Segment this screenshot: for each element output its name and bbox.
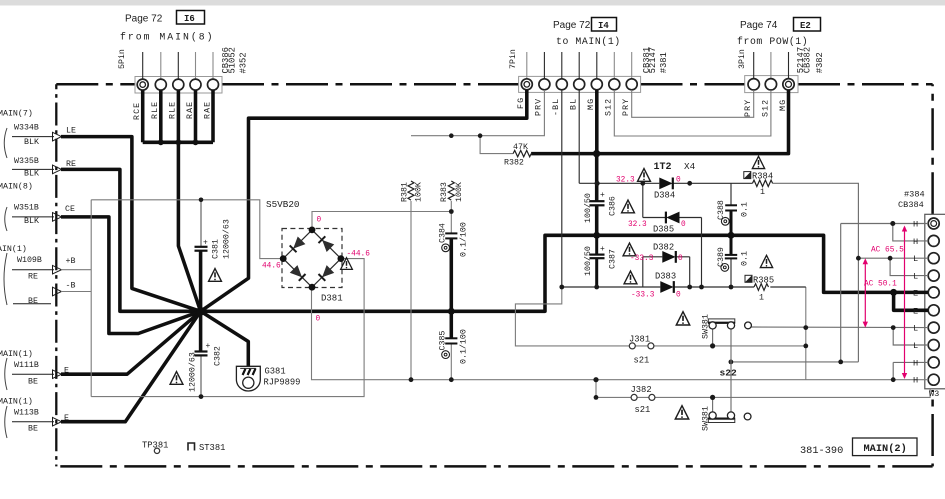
svg-text:0: 0 — [676, 177, 681, 185]
junction: R381 bottom on 0V rail — [409, 377, 414, 382]
AC measurement arrows — [863, 226, 908, 380]
svg-text:MG: MG — [587, 98, 596, 110]
svg-text:D382: D382 — [653, 243, 674, 253]
wire: CB381 pin leads above — [527, 52, 632, 79]
junction: J382 riser on 0V rail — [593, 377, 598, 382]
capacitor C385 0.1/100 — [445, 338, 457, 343]
connector CB381 (7 pin, to MAIN(1)) — [519, 52, 641, 92]
svg-text:RAE: RAE — [186, 101, 195, 119]
wire: C385 bottom lead — [450, 344, 452, 380]
svg-text:D383: D383 — [655, 271, 676, 281]
svg-text:100/50: 100/50 — [583, 246, 593, 276]
svg-text:+: + — [600, 191, 605, 200]
svg-text:0: 0 — [317, 217, 322, 225]
svg-text:BLK: BLK — [24, 169, 39, 178]
svg-text:RJP9899: RJP9899 — [264, 378, 301, 388]
wire: C381 top rail to bridge + — [91, 200, 281, 259]
wire: row3 riser from row4 — [642, 257, 644, 287]
svg-text:W351B: W351B — [14, 204, 39, 213]
wire: C389 bottom lead — [730, 258, 732, 287]
svg-text:C388: C388 — [717, 200, 726, 220]
svg-text:-BL: -BL — [552, 98, 561, 116]
svg-text:BE: BE — [28, 297, 38, 306]
wire: CB382 pin leads above — [754, 52, 789, 79]
svg-text:0: 0 — [316, 316, 321, 324]
svg-text:L: L — [913, 341, 918, 351]
wire: row4 0V segment through R385 — [674, 286, 806, 288]
junction: R383 top on PRV net — [449, 133, 454, 138]
junction: J381 end on R385 drop — [803, 344, 808, 349]
svg-text:-B: -B — [66, 282, 76, 291]
warning triangle SW381 upper — [676, 312, 689, 325]
svg-text:1: 1 — [759, 294, 764, 303]
wire: BL net to row1 — [578, 90, 580, 183]
svg-text:MAIN(7): MAIN(7) — [0, 108, 33, 118]
wire: page border right — [931, 84, 934, 466]
node D381 left vertex (44.6) — [280, 255, 287, 262]
svg-text:Page 72: Page 72 — [125, 14, 163, 25]
svg-text:D381: D381 — [321, 294, 343, 304]
node RE input arrow W335B — [12, 165, 62, 174]
pin 7 L — [928, 322, 939, 333]
svg-text:H: H — [913, 376, 918, 386]
svg-text:BL: BL — [570, 98, 579, 110]
svg-text:C382: C382 — [214, 346, 223, 366]
header CB382 — [737, 18, 825, 118]
wire: row2 segment with D385 — [643, 217, 702, 219]
pin 10 H — [928, 374, 939, 385]
pin 5 MG — [591, 79, 602, 90]
svg-text:100K: 100K — [455, 182, 464, 202]
resistor R381 100K — [408, 181, 414, 200]
svg-text:5Pin: 5Pin — [117, 49, 127, 69]
svg-text:-33.3: -33.3 — [630, 255, 654, 263]
svg-text:+: + — [206, 342, 211, 351]
svg-text:S12: S12 — [605, 98, 614, 116]
svg-text:L: L — [913, 254, 918, 264]
junction: C388 column on E bus — [728, 232, 735, 239]
wire: FG net to star node — [201, 90, 527, 311]
pin 4 BL — [574, 79, 585, 90]
svg-text:ST381: ST381 — [199, 443, 225, 453]
svg-text:47K: 47K — [513, 143, 528, 152]
junction: J382 riser on -B rail — [594, 395, 599, 400]
warning triangle D382 — [623, 243, 636, 256]
wire: MG net CB381 to CB382 — [597, 90, 789, 154]
wire: C388 top lead — [730, 183, 732, 205]
svg-text:0.1/100: 0.1/100 — [459, 329, 469, 364]
wire: RCE bus drop to star node — [178, 142, 200, 311]
wire: row1 0V segment to C388/R384 — [672, 182, 752, 184]
junction: C385 bottom on 0V rail — [449, 377, 454, 382]
wire: page border bottom — [56, 465, 932, 468]
diode D381-a (top-left) — [294, 237, 305, 248]
node E input arrow W111B — [12, 370, 62, 379]
pin 5 E — [928, 287, 939, 298]
svg-text:BLK: BLK — [24, 138, 39, 147]
svg-text:R385: R385 — [753, 275, 774, 285]
strap ST381 — [188, 443, 195, 451]
wire: H1 row to CB384 — [841, 223, 929, 225]
fusible resistor symbol R384 — [744, 172, 751, 179]
wire: E net (W111B) to star node — [61, 311, 201, 374]
svg-text:CE: CE — [65, 205, 75, 214]
svg-text:s21: s21 — [635, 405, 651, 415]
junction: R385 drop on L7 row — [803, 325, 808, 330]
wire: E bus elbow to CB384 pin 6 — [894, 292, 929, 310]
diode D385 — [666, 212, 680, 224]
svg-text:FG: FG — [517, 97, 526, 109]
wire: C384 lower thick lead — [450, 239, 454, 312]
junction: MG / R382 node — [593, 150, 600, 157]
cable group brace MAIN(8) — [5, 207, 7, 231]
wire: CE net to star node — [61, 217, 201, 334]
svg-text:PRY: PRY — [744, 99, 753, 117]
red voltage labels — [262, 177, 904, 324]
junction: D382/D383 cathode node — [687, 285, 692, 290]
cable group brace W113B — [5, 406, 7, 438]
wire: C388 column thick — [730, 211, 733, 255]
warning triangle D383 — [624, 271, 637, 284]
svg-text:I6: I6 — [184, 14, 195, 24]
svg-text:#384: #384 — [904, 190, 925, 200]
left input rows — [0, 108, 76, 438]
measure arrow AC 65.5 — [904, 227, 906, 377]
wire: S12 pass-through net — [614, 90, 771, 136]
svg-text:D385: D385 — [653, 225, 674, 235]
wire: bridge diamond edges — [283, 230, 341, 287]
svg-text:from POW(1): from POW(1) — [737, 36, 808, 47]
wire: C382 thick lead — [199, 311, 203, 351]
svg-text:G381: G381 — [265, 367, 286, 377]
svg-text:52147: 52147 — [648, 47, 658, 73]
junction: H1/H2 drop on select line — [838, 360, 843, 365]
svg-text:RLE: RLE — [169, 101, 178, 119]
junction: D385 riser on row4 — [699, 285, 704, 290]
wire: page border left — [55, 84, 57, 466]
wire: row2 riser from row1 — [642, 183, 644, 217]
svg-text:12000/63: 12000/63 — [222, 219, 232, 259]
svg-text:E: E — [913, 306, 918, 316]
svg-text:3Pin: 3Pin — [737, 49, 747, 69]
wire: SW381 upper left contact riser — [712, 329, 714, 346]
pin 2 H — [928, 235, 939, 246]
pin 6 E — [928, 305, 939, 316]
svg-text:L: L — [913, 324, 918, 334]
wire: C384 top lead — [450, 212, 452, 234]
wire: L7 row to SW381 common — [751, 326, 928, 329]
junction: H9/H10 tie node — [891, 377, 896, 382]
junction: row4 left at -BL column — [559, 285, 564, 290]
wire: 0V rail riser to J382 — [596, 380, 930, 398]
wire: H9/H10 tie jog — [893, 362, 928, 379]
wire: R382 right lead to MG junction — [531, 152, 597, 156]
svg-text:#381: #381 — [659, 52, 669, 73]
svg-text:32.3: 32.3 — [628, 221, 647, 229]
node SW381 upper common contact — [745, 322, 752, 329]
wire: RE net to star node — [61, 169, 201, 311]
svg-text:H: H — [913, 358, 918, 368]
wire: C382 thin bottom lead — [200, 356, 202, 397]
svg-text:W111B: W111B — [14, 361, 39, 370]
wire: main E bus star to right — [201, 235, 929, 311]
junction: CB386 bus pin2 — [158, 139, 164, 145]
wire: R384 right lead to L3/L4 — [773, 183, 859, 362]
svg-text:R383: R383 — [440, 182, 449, 202]
svg-text:PRY: PRY — [622, 98, 631, 116]
capacitor C388 0.1 — [725, 205, 737, 210]
svg-text:I4: I4 — [598, 21, 609, 31]
svg-text:MAIN(8): MAIN(8) — [0, 181, 33, 191]
pin 7 PRY — [626, 79, 637, 90]
svg-text:0.1: 0.1 — [741, 202, 750, 217]
pin 2 RLE — [155, 79, 166, 90]
junction: CB386 bus pin3 — [176, 139, 182, 145]
junction: row1 at C386 column — [595, 181, 600, 186]
svg-text:S5VB20: S5VB20 — [266, 199, 299, 210]
diode D381-b (top-right) — [323, 241, 334, 252]
wire: -44.6 node to J381 net — [515, 287, 629, 346]
svg-text:R382: R382 — [504, 158, 524, 167]
capacitor C387 100/50 — [590, 255, 605, 259]
svg-text:MAIN(2): MAIN(2) — [864, 443, 907, 455]
pin 1 PRY — [748, 79, 759, 90]
pin 3 L — [928, 253, 939, 264]
svg-text:AC 50.1: AC 50.1 — [864, 281, 897, 289]
warning triangle C382 — [170, 372, 183, 385]
pin 3 MG (double circle) — [783, 79, 794, 90]
junction: H1/H2 tie node — [890, 221, 895, 226]
svg-text:BLK: BLK — [24, 217, 39, 226]
svg-text:+B: +B — [66, 257, 76, 266]
svg-text:J382: J382 — [631, 385, 652, 395]
junction: star node — [196, 307, 205, 316]
svg-text:CB384: CB384 — [898, 200, 924, 210]
junction: R383/C384 node — [449, 209, 454, 214]
svg-text:C384: C384 — [439, 223, 448, 243]
connector CB382 (3 pin, from POW(1)) — [745, 52, 798, 93]
svg-text:0: 0 — [676, 292, 681, 300]
resistor R384 1 — [753, 180, 773, 186]
wire: C385 upper thick lead — [450, 311, 454, 338]
wire: CB386 pin drops to bus — [143, 90, 213, 142]
wire: L3 row to CB384 — [858, 257, 928, 259]
ground lug G381 RJP9899 — [236, 366, 260, 391]
wire: H1/H2 drop to SW381 select — [731, 224, 859, 362]
svg-text:D384: D384 — [654, 191, 675, 201]
wire: L7/L8 tie jog — [893, 328, 928, 345]
measure arrow AC 50.1 — [864, 262, 866, 325]
junction: L3/L4 tie node — [888, 256, 893, 261]
capacitor C389 0.1 — [725, 255, 737, 259]
node D381 right vertex (-44.6) — [338, 255, 345, 262]
warning triangle D385 — [622, 200, 635, 213]
svg-text:W334B: W334B — [14, 124, 39, 133]
wire: SW381 lower left contact riser — [712, 397, 714, 411]
svg-text:RAE: RAE — [203, 101, 212, 119]
svg-text:MAIN(1): MAIN(1) — [0, 396, 33, 406]
svg-text:51052: 51052 — [228, 47, 238, 73]
pin 4 RAE — [190, 79, 201, 90]
node -B input arrow W109B — [13, 287, 62, 304]
svg-text:-44.6: -44.6 — [347, 251, 371, 259]
junction: SW381 upper left on J381 net — [710, 343, 715, 348]
svg-text:C381: C381 — [212, 239, 221, 259]
wire: CB386 tie bus — [143, 141, 213, 145]
svg-text:381-390: 381-390 — [800, 445, 843, 457]
svg-text:RCE: RCE — [133, 102, 142, 120]
wire: PRV drop to R382 — [480, 136, 513, 154]
node D381 bottom vertex — [309, 284, 316, 291]
warning triangle R385 — [760, 255, 772, 267]
svg-text:AC 65.5: AC 65.5 — [871, 247, 904, 255]
bridge rectifier D381 S5VB20 — [280, 227, 344, 291]
svg-text:100/50: 100/50 — [583, 193, 593, 223]
wire: PRV net — [411, 90, 544, 136]
header CB381 — [508, 18, 669, 117]
cable group brace W109B — [4, 253, 7, 305]
switch SW381 lower — [708, 412, 751, 423]
wire: +B/-B shared vertical — [90, 200, 92, 397]
svg-text:12000/63: 12000/63 — [188, 352, 198, 392]
capacitor C384 0.1/100 — [445, 233, 457, 238]
page name box MAIN(2) — [853, 438, 918, 456]
junction: C386 column on E bus — [593, 232, 600, 239]
svg-text:RLE: RLE — [151, 101, 160, 119]
test point TP381 — [154, 448, 159, 453]
junction: C387 bottom on row4 — [594, 285, 599, 290]
svg-text:R381: R381 — [401, 182, 410, 202]
pin 9 H — [928, 357, 939, 368]
wire: C386 column thick (MG junction to bus) — [595, 154, 599, 235]
svg-text:-33.3: -33.3 — [631, 292, 655, 300]
resistor R382 47K — [513, 150, 531, 156]
svg-text:PRV: PRV — [535, 98, 544, 116]
svg-text:7Pin: 7Pin — [508, 49, 518, 69]
svg-text:BE: BE — [28, 425, 38, 434]
svg-text:+: + — [600, 245, 605, 254]
wire: page border top — [56, 83, 932, 86]
cable group brace W111B — [5, 358, 7, 390]
svg-text:MG: MG — [779, 99, 788, 111]
svg-text:from MAIN(8): from MAIN(8) — [120, 32, 215, 43]
wire: C381 thin top lead — [200, 200, 202, 247]
capacitor C381 12000/63 — [195, 247, 208, 251]
wire: C381 thick lead — [199, 251, 203, 312]
svg-text:1: 1 — [760, 188, 765, 197]
junction: C384 on E bus — [448, 308, 455, 315]
svg-text:Page 72: Page 72 — [553, 20, 591, 31]
svg-text:0.1: 0.1 — [741, 251, 750, 266]
svg-text:44.6: 44.6 — [262, 263, 281, 271]
svg-text:C387: C387 — [609, 249, 618, 269]
connector CB384 labels — [898, 190, 939, 399]
svg-text:W3: W3 — [929, 389, 939, 399]
junction: C382 bottom on -B rail — [199, 394, 204, 399]
pin 5 RAE — [208, 79, 219, 90]
svg-text:CB382: CB382 — [803, 47, 813, 73]
junction: D384 cathode node — [687, 181, 692, 186]
warning triangle R384 — [752, 156, 764, 168]
wire: H1/H2 tie jog — [893, 224, 928, 241]
pin 3 RLE — [173, 79, 184, 90]
warning triangle C381 — [209, 269, 222, 282]
wire: R383 bottom lead — [450, 201, 452, 212]
diode D382 — [662, 251, 676, 263]
diode D381-d (bottom-right) — [323, 266, 334, 277]
svg-text:J381: J381 — [629, 335, 650, 345]
svg-text:W113B: W113B — [14, 408, 39, 417]
junction: L7/L8 tie node — [891, 325, 896, 330]
pin 8 L — [928, 340, 939, 351]
pin 1 FG (double circle) — [521, 79, 532, 90]
wire: row1 32.3 segment — [579, 182, 659, 184]
warning triangle D381 — [341, 258, 353, 270]
switch SW381 upper — [708, 319, 751, 329]
wire: row3 -33.3 segment to D382 — [643, 256, 663, 258]
svg-text:to MAIN(1): to MAIN(1) — [556, 36, 621, 47]
pin 2 PRV — [539, 79, 550, 90]
svg-text:+: + — [203, 239, 208, 248]
svg-text:1T2: 1T2 — [654, 162, 672, 173]
svg-text:MAIN(1): MAIN(1) — [0, 349, 33, 359]
capacitor C386 100/50 — [590, 201, 605, 205]
junction: SW381 lower left on -B rail — [710, 395, 715, 400]
scan edge band top — [0, 0, 945, 6]
svg-text:LE: LE — [66, 127, 76, 136]
wire: R381 bottom lead — [410, 201, 412, 380]
pin 2 S12 — [765, 79, 776, 90]
wire: +B net to C381 top rail — [61, 269, 91, 271]
svg-text:SW381: SW381 — [702, 406, 711, 431]
svg-text:E: E — [913, 288, 918, 298]
svg-text:Page 74: Page 74 — [740, 20, 778, 31]
cable group brace MAIN(7) — [4, 128, 7, 158]
svg-text:R384: R384 — [752, 172, 773, 182]
wire: -BL net to row4 — [561, 90, 563, 287]
svg-text:E2: E2 — [800, 21, 811, 31]
junction: CB386 bus pin4 — [193, 139, 199, 145]
pin 6 S12 — [609, 79, 620, 90]
junction: row2 riser on row1 — [640, 181, 645, 186]
svg-text:L: L — [913, 272, 918, 282]
svg-text:s22: s22 — [720, 368, 738, 379]
connector CB384 (10 pin, right edge) — [925, 214, 945, 388]
jumper J382 — [631, 394, 655, 400]
svg-text:0: 0 — [678, 255, 683, 263]
junction: select column on H line — [729, 360, 734, 365]
wire: D382 cathode riser to row4 — [675, 257, 690, 287]
svg-text:W335B: W335B — [14, 157, 39, 166]
junction: E bus split to CB384 E pins — [890, 289, 897, 296]
node CE input arrow W351B — [12, 213, 62, 222]
svg-text:H: H — [913, 237, 918, 247]
resistor R383 100K — [448, 181, 454, 200]
pin 3 -BL — [556, 79, 567, 90]
wire: J381 link and right run — [635, 345, 805, 347]
fusible resistor symbol R385 — [745, 275, 752, 282]
node SW381 lower common contact — [744, 413, 751, 420]
warning triangle D384 — [638, 169, 651, 182]
svg-text:TP381: TP381 — [142, 441, 168, 451]
diode D383 — [660, 281, 674, 293]
svg-text:MAIN(1): MAIN(1) — [0, 244, 27, 254]
wire: D381 bottom to 0V rail — [312, 287, 929, 380]
junction: R384 drop on L3 row — [856, 256, 861, 261]
wire: star node to G381 — [201, 311, 249, 366]
svg-text:RE: RE — [28, 272, 38, 281]
svg-text:#352: #352 — [239, 52, 249, 73]
